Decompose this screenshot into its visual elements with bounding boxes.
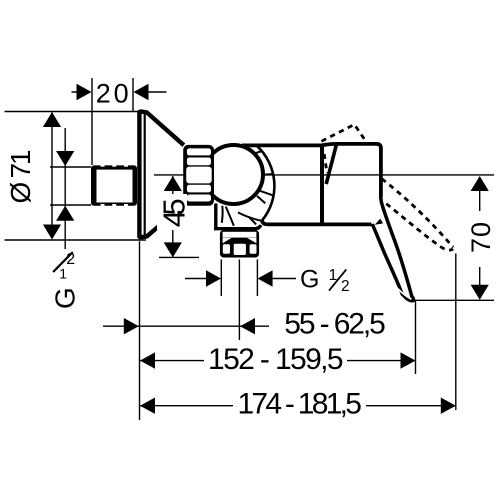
- body bottom edge: [262, 221, 372, 225]
- ball sphere: [204, 145, 263, 204]
- centerline axis: [154, 174, 494, 176]
- svg-text:55 - 62,5: 55 - 62,5: [284, 308, 386, 341]
- dia71 ext lines: [5, 112, 147, 241]
- svg-text:Ø 71: Ø 71: [5, 150, 36, 204]
- svg-text:45: 45: [156, 198, 191, 227]
- svg-text:2: 2: [66, 251, 75, 268]
- ball outer arc: [257, 146, 274, 221]
- lever tip inner white slit: [397, 288, 412, 299]
- lever handle: [372, 197, 413, 301]
- thin dimension and extension lines: [5, 78, 495, 420]
- union nut: [183, 145, 214, 206]
- dim 20 ext lines: [92, 78, 133, 165]
- outlet G1/2 arrows: [206, 270, 221, 286]
- row3 arrows: [140, 398, 155, 414]
- body top edge: [242, 143, 322, 147]
- row1 arrows: [124, 318, 139, 334]
- dashed lever swung lower: [386, 204, 453, 250]
- flange inner face line: [144, 114, 146, 235]
- 70 dim line: [479, 177, 481, 299]
- G1/2 left arrows: [56, 151, 74, 166]
- 70 arrows: [471, 176, 489, 191]
- svg-text:174 - 181,5: 174 - 181,5: [237, 387, 362, 420]
- outlet shoulder: [214, 204, 261, 229]
- svg-text:152 - 159,5: 152 - 159,5: [208, 343, 344, 376]
- sleeve right edge: [320, 145, 324, 225]
- lever front edge diagonal: [326, 144, 336, 184]
- G1/2 left ext lines: [50, 167, 91, 205]
- svg-text:2: 2: [341, 278, 350, 295]
- row3 174-181.5 dim line: [140, 405, 456, 407]
- wall flange escutcheon: [139, 112, 183, 238]
- svg-text:G: G: [50, 287, 81, 309]
- body sculpt lines under ball: [222, 206, 262, 226]
- G1/2 left dim line: [64, 128, 66, 249]
- 45 bottom ext line: [159, 256, 199, 258]
- svg-text:G: G: [300, 266, 319, 294]
- wall line: [139, 241, 141, 420]
- lever tab marker: [375, 219, 383, 225]
- svg-text:70: 70: [466, 222, 496, 253]
- dia71 dim line: [51, 113, 53, 239]
- outlet ext lines: [221, 260, 257, 341]
- white masks for text on lines: [157, 194, 495, 417]
- dim 20 tails: [72, 91, 167, 93]
- arrowheads: [43, 84, 489, 414]
- wall nipple G1/2 thread: [91, 165, 137, 206]
- handle tip ext lines: [414, 300, 494, 374]
- dashed tip ext line: [455, 254, 457, 411]
- dashed lever edge on sleeve: [324, 154, 327, 173]
- ball hatch ticks: [250, 151, 274, 203]
- row1 55-62.5 dim line: [103, 325, 269, 327]
- dim 20 arrows: [77, 84, 92, 100]
- dia71 arrows: [43, 112, 61, 127]
- outlet fitting G1/2: [220, 230, 259, 258]
- housing top and right edge: [322, 144, 381, 197]
- dashed lever swung upper: [382, 179, 453, 248]
- svg-text:0: 0: [114, 78, 129, 108]
- dimension texts: [5, 78, 496, 420]
- dashed lever raised outline top: [322, 125, 368, 144]
- row2 arrows: [140, 352, 155, 368]
- 45 dim line: [172, 176, 174, 257]
- svg-text:2: 2: [96, 78, 111, 108]
- row2 152-159.5 dim line: [140, 360, 416, 362]
- outlet G1/2 dim tails: [185, 278, 296, 280]
- 45 arrows: [164, 176, 182, 191]
